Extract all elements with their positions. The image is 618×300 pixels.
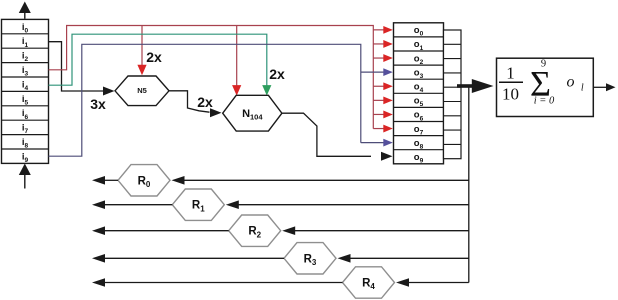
red wire i3 to red bus bbox=[49, 26, 374, 129]
feedback row R1: wire from bus bbox=[226, 200, 469, 209]
teal wire i4 to N104 top (2x) bbox=[49, 34, 272, 95]
input stack shift-out arrow (top) bbox=[19, 2, 31, 19]
red arrow into o5 bbox=[373, 96, 393, 104]
thick arrow from output stack to averaging block bbox=[457, 79, 494, 93]
hexagon R4 bbox=[343, 267, 395, 298]
feedback row R2: wire from bus bbox=[282, 226, 469, 235]
svg-text:2x: 2x bbox=[146, 49, 162, 65]
svg-text:i = 0: i = 0 bbox=[534, 96, 555, 107]
feedback bus vertical wire bbox=[468, 88, 470, 283]
svg-text:10: 10 bbox=[502, 85, 519, 104]
wire N104 to o9 bbox=[282, 113, 393, 161]
svg-text:1: 1 bbox=[506, 64, 515, 83]
svg-text:9: 9 bbox=[541, 59, 546, 70]
output arrow from averaging block bbox=[593, 83, 615, 91]
red arrow into o2 bbox=[373, 54, 393, 62]
input stack shift-in arrow (bottom) bbox=[19, 164, 31, 189]
red arrow into o7 bbox=[373, 125, 393, 133]
hexagon R1 bbox=[172, 189, 224, 220]
feedback row R4: wire to left arrow bbox=[92, 278, 343, 287]
feedback row R1: wire to left arrow bbox=[92, 200, 172, 209]
feedback row R3: wire to left arrow bbox=[92, 254, 284, 263]
navy wire i9 to navy bus bbox=[49, 44, 361, 156]
averaging formula block 1/10 sum o_i bbox=[497, 58, 594, 116]
svg-text:3x: 3x bbox=[90, 96, 106, 112]
hexagon R0 bbox=[118, 165, 170, 196]
staggered shift column right of output stack bbox=[444, 30, 462, 159]
svg-text:o: o bbox=[567, 74, 575, 91]
svg-text:2x: 2x bbox=[197, 94, 213, 110]
output register stack o0-o9 bbox=[394, 23, 444, 165]
red arrow into o0 bbox=[373, 26, 393, 34]
navy arrow into o8 bbox=[361, 139, 393, 147]
feedback row R3: wire from bus bbox=[338, 254, 469, 263]
hexagon R3 bbox=[284, 243, 336, 274]
red arrow into o1 bbox=[373, 40, 393, 48]
red arrow into o4 bbox=[373, 82, 393, 90]
wire i1 to N5 (3x) bbox=[49, 42, 115, 96]
input register stack i0-i9 bbox=[2, 19, 49, 164]
wire N5 to N104 (2x) bbox=[169, 91, 222, 117]
hexagon node N5 bbox=[115, 76, 169, 106]
feedback row R0: wire to left arrow bbox=[92, 176, 118, 185]
red arrow into o6 bbox=[373, 111, 393, 119]
svg-text:N5: N5 bbox=[137, 86, 147, 95]
svg-text:l: l bbox=[581, 83, 584, 94]
hexagon R2 bbox=[229, 215, 281, 246]
feedback row R4: wire from bus bbox=[396, 278, 469, 287]
red branch into N104 top bbox=[232, 26, 241, 96]
feedback row R2: wire to left arrow bbox=[92, 226, 229, 235]
svg-text:2x: 2x bbox=[269, 66, 285, 82]
hexagon node N104 bbox=[223, 95, 282, 131]
navy arrow into o3 bbox=[361, 68, 393, 76]
feedback row R0: wire from bus bbox=[172, 176, 469, 185]
red branch into N5 top (2x) bbox=[137, 26, 146, 76]
